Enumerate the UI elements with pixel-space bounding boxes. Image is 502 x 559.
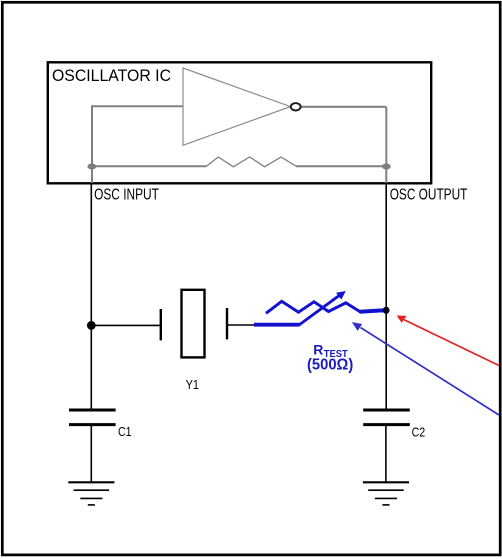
svg-text:Y1: Y1	[186, 377, 199, 392]
svg-text:OSC INPUT: OSC INPUT	[94, 186, 159, 203]
svg-text:OSCILLATOR IC: OSCILLATOR IC	[52, 66, 171, 85]
svg-text:OSC OUTPUT: OSC OUTPUT	[390, 186, 468, 203]
svg-text:C2: C2	[412, 426, 426, 440]
svg-text:(500Ω): (500Ω)	[307, 356, 353, 373]
svg-text:R: R	[313, 341, 323, 357]
svg-text:C1: C1	[118, 425, 132, 439]
